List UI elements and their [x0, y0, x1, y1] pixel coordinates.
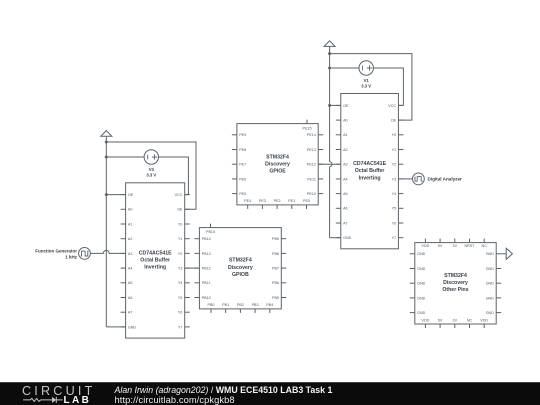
IC U5 STM32F4 Discovery Other Pins	[415, 243, 496, 324]
svg-text:Inverting: Inverting	[359, 175, 381, 181]
svg-text:PB14: PB14	[202, 237, 211, 241]
svg-text:VDD: VDD	[422, 244, 430, 248]
svg-text:PE11: PE11	[307, 177, 316, 181]
svg-text:PE10: PE10	[307, 192, 316, 196]
svg-text:Y0: Y0	[178, 222, 183, 226]
svg-text:Digital Analyzer: Digital Analyzer	[428, 177, 463, 182]
svg-text:OE: OE	[177, 208, 183, 212]
IC U2 right pins PE14,PE13,PE12,PE11,PE10	[307, 133, 323, 196]
function generator V2 1 kHz	[35, 248, 90, 260]
svg-text:PE7: PE7	[239, 163, 246, 167]
svg-text:STM32F4: STM32F4	[229, 258, 252, 264]
svg-text:Y6: Y6	[392, 221, 397, 225]
svg-text:GND: GND	[417, 252, 426, 256]
svg-text:GND: GND	[417, 296, 426, 300]
IC U2 left pins PE9,PE8,PE7,PE6,PE5	[232, 133, 246, 196]
svg-text:A5: A5	[128, 281, 133, 285]
svg-text:PB6: PB6	[272, 281, 279, 285]
svg-text:GND: GND	[486, 252, 495, 256]
svg-text:3.3 V: 3.3 V	[146, 172, 156, 177]
IC U3 STM32F4 Discovery GPIOB	[199, 228, 281, 309]
wire PE12 of U2 to A3 pin of U4	[318, 163, 341, 165]
svg-text:PB4: PB4	[266, 303, 273, 307]
wire V1 branch left segment	[330, 67, 360, 69]
svg-text:PB8: PB8	[272, 252, 279, 256]
svg-text:NC: NC	[467, 318, 473, 322]
svg-text:A3: A3	[128, 252, 133, 256]
svg-text:Y5: Y5	[178, 296, 183, 300]
svg-text:VCC: VCC	[388, 104, 396, 108]
svg-text:NRST: NRST	[464, 244, 475, 248]
wire V1 to VCC pin of U4	[373, 68, 403, 105]
IC U5 left pins GND,GND,GND,GND,GND	[410, 252, 426, 315]
svg-text:GPIOE: GPIOE	[269, 169, 286, 175]
svg-text:PB3: PB3	[252, 303, 259, 307]
svg-text:A1: A1	[128, 222, 133, 226]
svg-text:A7: A7	[128, 311, 133, 315]
svg-text:VDD: VDD	[422, 318, 430, 322]
svg-text:3V: 3V	[453, 244, 458, 248]
svg-text:A6: A6	[343, 207, 348, 211]
junction at left rail / OE branch	[105, 193, 108, 196]
IC U3 top pin PB15	[206, 224, 215, 235]
svg-text:PB9: PB9	[272, 237, 279, 241]
svg-text:PE0: PE0	[303, 199, 310, 203]
svg-text:5V: 5V	[438, 318, 443, 322]
svg-text:PB2: PB2	[237, 303, 244, 307]
wire Y3 of U1 to PB12 of U3	[185, 267, 200, 269]
logo resistor-diode glyph	[23, 396, 63, 404]
svg-text:A6: A6	[128, 296, 133, 300]
wire top branch to OE right pin of U1	[106, 142, 196, 209]
svg-text:A4: A4	[343, 177, 348, 181]
svg-text:3V: 3V	[453, 318, 458, 322]
svg-text:VDD: VDD	[480, 318, 488, 322]
svg-text:PE3: PE3	[259, 199, 266, 203]
svg-text:Y3: Y3	[178, 266, 183, 270]
svg-text:A2: A2	[128, 237, 133, 241]
digital analyzer probe	[413, 173, 463, 185]
svg-text:Y1: Y1	[392, 148, 397, 152]
power flag VDD (right circuit)	[324, 41, 335, 47]
svg-text:PB0: PB0	[208, 303, 215, 307]
IC U2 bottom pins PE4,PE3,PE2,PE1,PE0	[244, 199, 310, 209]
svg-text:PB13: PB13	[202, 252, 211, 256]
svg-text:Y2: Y2	[178, 252, 183, 256]
svg-text:PE14: PE14	[307, 133, 316, 137]
svg-text:GND: GND	[486, 282, 495, 286]
IC U5 top pins VDD,5V,3V,NRST,NC	[422, 239, 488, 249]
svg-text:PB5: PB5	[272, 296, 279, 300]
svg-text:GND: GND	[343, 236, 352, 240]
svg-text:OE: OE	[391, 118, 397, 122]
wire right rail to OE left pin of U4	[330, 104, 341, 106]
svg-text:PB15: PB15	[206, 230, 215, 234]
svg-text:Y2: Y2	[392, 163, 397, 167]
svg-text:Y5: Y5	[392, 207, 397, 211]
svg-text:OE: OE	[128, 193, 134, 197]
svg-text:A0: A0	[343, 118, 348, 122]
junction at left rail / top branch	[105, 141, 108, 144]
svg-text:Y3: Y3	[392, 177, 397, 181]
IC U3 bottom pins PB0,PB1,PB2,PB3,PB4	[208, 303, 274, 313]
svg-text:A7: A7	[343, 221, 348, 225]
svg-text:1 kHz: 1 kHz	[65, 254, 78, 259]
svg-text:V3: V3	[149, 167, 155, 172]
svg-text:PE12: PE12	[307, 163, 316, 167]
svg-text:GND: GND	[417, 311, 426, 315]
svg-text:A4: A4	[128, 266, 133, 270]
IC U3 left pins PB14,PB13,PB12,PB11,PB10	[194, 237, 210, 300]
IC U2 STM32F4 Discovery GPIOE	[237, 124, 318, 205]
wire V3 branch left segment	[106, 156, 144, 158]
svg-text:Y4: Y4	[392, 192, 397, 196]
svg-text:3.3 V: 3.3 V	[361, 83, 371, 88]
junction at left rail / V3 branch	[105, 156, 108, 159]
svg-text:OE: OE	[343, 104, 349, 108]
svg-text:Discovery: Discovery	[265, 161, 290, 167]
svg-text:STM32F4: STM32F4	[266, 154, 289, 160]
IC U1 CD74AC541E octal buffer inverting	[126, 183, 185, 338]
svg-text:PB11: PB11	[202, 281, 211, 285]
svg-text:NC: NC	[482, 244, 488, 248]
IC U4 CD74AC541E octal buffer inverting	[341, 94, 399, 249]
svg-text:PE15: PE15	[302, 126, 311, 130]
svg-text:GND: GND	[417, 282, 426, 286]
svg-text:A2: A2	[343, 148, 348, 152]
svg-text:PE1: PE1	[288, 199, 295, 203]
svg-text:PB10: PB10	[202, 296, 211, 300]
wire function generator to A3 pin of U1 with hop over left rail	[90, 250, 125, 253]
IC U4 left pins OE,A0,A1,A2,A3,A4,A5,A6,A7,GND	[336, 104, 352, 240]
svg-text:Other Pins: Other Pins	[442, 287, 468, 293]
svg-text:Function Generator: Function Generator	[35, 249, 77, 254]
svg-text:A0: A0	[128, 208, 133, 212]
wire Y3 of U4 to digital analyzer	[398, 178, 412, 180]
voltage source V1 3.3 V	[359, 61, 373, 89]
ground flag arrow (node marker)	[506, 248, 512, 259]
svg-text:PE4: PE4	[244, 199, 251, 203]
svg-text:PB7: PB7	[272, 266, 279, 270]
wire from power flag down right rail x=329.6 with hop over PE12 wire	[329, 46, 331, 237]
svg-text:Discovery: Discovery	[228, 265, 253, 271]
svg-text:GND: GND	[486, 267, 495, 271]
IC U3 right pins PB9,PB8,PB7,PB6,PB5	[272, 237, 286, 300]
svg-text:GND: GND	[486, 311, 495, 315]
junction at right rail / V1 branch	[328, 67, 331, 70]
svg-text:Inverting: Inverting	[144, 265, 166, 271]
svg-text:Octal Buffer: Octal Buffer	[140, 258, 170, 264]
svg-text:V1: V1	[364, 78, 370, 83]
svg-text:Discovery: Discovery	[443, 280, 468, 286]
svg-text:Y1: Y1	[178, 237, 183, 241]
svg-text:GPIOB: GPIOB	[232, 272, 249, 278]
svg-text:Y7: Y7	[392, 236, 397, 240]
svg-text:CD74AC541E: CD74AC541E	[139, 250, 172, 256]
svg-text:CD74AC541E: CD74AC541E	[353, 161, 386, 167]
svg-text:A3: A3	[343, 163, 348, 167]
svg-text:STM32F4: STM32F4	[444, 273, 467, 279]
IC U5 right pins GND,GND,GND,GND,GND	[486, 252, 502, 315]
wire from power flag down left rail x=106.3	[105, 136, 107, 327]
hop of right rail over PE12-A3 wire	[330, 162, 333, 167]
svg-text:Y0: Y0	[392, 133, 397, 137]
wire right rail to GND pin of U4	[330, 237, 341, 239]
svg-text:GND: GND	[486, 296, 495, 300]
svg-text:PE6: PE6	[239, 177, 246, 181]
svg-text:Y6: Y6	[178, 311, 183, 315]
svg-text:Y7: Y7	[178, 325, 183, 329]
svg-text:Y4: Y4	[178, 281, 183, 285]
IC U1 right pins VCC,OE,Y0,Y1,Y2,Y3,Y4,Y5,Y6,Y7	[175, 193, 190, 329]
svg-text:PE5: PE5	[239, 192, 246, 196]
IC U4 right pins VCC,OE,Y0,Y1,Y2,Y3,Y4,Y5,Y6,Y7	[388, 104, 403, 240]
svg-text:A5: A5	[343, 192, 348, 196]
svg-text:VCC: VCC	[175, 193, 183, 197]
svg-text:PB12: PB12	[202, 266, 211, 270]
wire top branch to OE right pin of U4	[330, 54, 412, 121]
svg-text:A1: A1	[343, 133, 348, 137]
wire left rail to GND pin of U1	[106, 326, 125, 328]
junction at right rail / OE branch	[328, 104, 331, 107]
wire left rail to OE left pin of U1	[106, 194, 125, 196]
svg-text:GND: GND	[128, 325, 137, 329]
IC U5 bottom pins VDD,5V,3V,NC,VDD	[422, 318, 489, 328]
svg-text:PE2: PE2	[274, 199, 281, 203]
junction at right rail / top branch	[328, 52, 331, 55]
svg-text:PE9: PE9	[239, 133, 246, 137]
svg-text:PB1: PB1	[222, 303, 229, 307]
svg-text:GND: GND	[417, 267, 426, 271]
power flag VDD (left circuit)	[101, 131, 112, 137]
svg-text:PE13: PE13	[307, 148, 316, 152]
svg-text:5V: 5V	[438, 244, 443, 248]
wire V3 to VCC pin of U1	[158, 157, 189, 195]
svg-text:PE8: PE8	[239, 148, 246, 152]
IC U1 left pins OE,A0,A1,A2,A3,A4,A5,A6,A7,GND	[121, 193, 137, 329]
wire GND pin of U5 to ground flag	[501, 253, 506, 255]
IC U2 top pin PE15	[302, 120, 311, 131]
voltage source V3 3.3 V	[144, 150, 158, 178]
svg-text:Octal Buffer: Octal Buffer	[355, 168, 385, 174]
